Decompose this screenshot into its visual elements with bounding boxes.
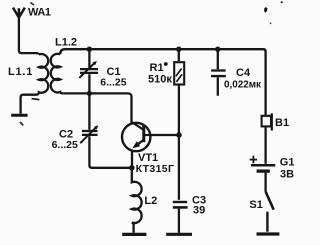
svg-text:R1: R1 — [150, 62, 164, 74]
wire R1 bottom to collector node to C3 — [178, 85, 180, 200]
node collector / R1 / C3 — [176, 132, 182, 138]
svg-text:S1: S1 — [249, 199, 262, 211]
svg-text:КТ315Г: КТ315Г — [136, 163, 175, 175]
earphone B1 side bar — [271, 113, 273, 130]
scan dot top right — [281, 1, 283, 3]
capacitor C2 arrow — [80, 127, 96, 143]
svg-text:3B: 3B — [280, 168, 294, 180]
svg-text:C4: C4 — [236, 67, 251, 79]
resistor R1 stem top — [178, 49, 180, 62]
scan speck right — [270, 22, 272, 24]
ground — [11, 114, 27, 117]
battery G1 long plate — [251, 164, 275, 167]
node top bus / C1 — [87, 47, 92, 52]
inductor L2 — [132, 168, 142, 233]
capacitor C3 plates — [173, 201, 187, 203]
svg-text:B1: B1 — [275, 117, 289, 129]
transistor VT1 base bar — [142, 125, 145, 142]
capacitor C2 plates — [82, 131, 98, 135]
svg-text:L1.1: L1.1 — [8, 66, 33, 78]
transistor VT1 collector link — [144, 134, 151, 136]
earphone B1 body — [262, 116, 271, 127]
scan tick below ground — [20, 122, 23, 125]
switch S1 lower lead — [266, 212, 268, 232]
wire collector — [151, 134, 179, 136]
transistor VT1 base link — [132, 122, 144, 130]
S1 terminal bar — [257, 232, 280, 235]
antenna WA1 — [13, 8, 25, 18]
resistor R1 body — [174, 62, 184, 84]
inductor L1.2 — [51, 54, 63, 94]
transistor VT1 emitter with arrow — [135, 140, 144, 147]
wire tank node to transistor base — [63, 93, 131, 123]
resistor R1 hatching — [176, 69, 182, 82]
capacitor C1 plates — [80, 69, 98, 73]
svg-text:6...25: 6...25 — [100, 77, 126, 89]
node emitter / C2 / L2 — [129, 165, 135, 171]
wire emitter lead — [131, 150, 133, 168]
wire B1 to G1 — [264, 126, 266, 163]
capacitor C4 plates — [211, 69, 225, 71]
svg-text:L2: L2 — [144, 195, 157, 207]
transistor VT1 circle — [122, 123, 150, 151]
svg-text:39: 39 — [193, 204, 205, 216]
C3 terminal bar — [166, 233, 192, 236]
svg-text:L1.2: L1.2 — [55, 37, 77, 49]
switch S1 blade — [266, 192, 274, 210]
svg-text:510к: 510к — [148, 74, 172, 86]
capacitor C1 arrow — [79, 62, 95, 78]
node top bus / C4 — [215, 47, 220, 52]
svg-text:VT1: VT1 — [138, 152, 158, 164]
capacitor C3 bottom stem — [178, 209, 180, 233]
svg-text:6...25: 6...25 — [52, 139, 78, 151]
battery plus sign — [250, 156, 257, 164]
svg-text:0,022мк: 0,022мк — [224, 79, 261, 90]
scan speck blob top right — [264, 7, 267, 12]
wire C1 C2 branch — [89, 49, 131, 168]
svg-text:G1: G1 — [280, 157, 295, 169]
capacitor C4 stem — [217, 49, 219, 96]
node top bus / R1 — [176, 47, 181, 52]
battery G1 short plate — [257, 169, 270, 172]
wire antenna lead to L1.1 top — [19, 17, 39, 55]
L2 terminal bar — [122, 233, 146, 236]
wire G1 to S1 — [264, 173, 266, 192]
svg-text:WA1: WA1 — [28, 7, 51, 19]
node tank / C1 — [87, 91, 92, 96]
inductor L1.1 — [21, 54, 49, 114]
scan dash under L1.1 — [32, 99, 40, 100]
wire L1.2 top to top bus, top bus, down to B1 — [60, 49, 265, 116]
speck above WA1 — [30, 3, 34, 5]
